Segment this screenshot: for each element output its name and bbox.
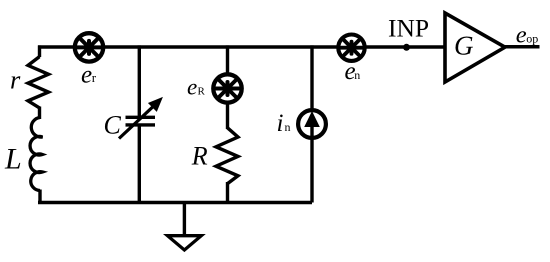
capacitor C variable arrow — [119, 98, 162, 139]
noise source e_n — [338, 35, 364, 61]
noise source e_r — [75, 33, 103, 61]
node INP dot — [403, 44, 410, 51]
svg-text:C: C — [104, 110, 122, 139]
inductor L — [30, 118, 42, 191]
svg-text:R: R — [191, 141, 208, 170]
ground — [168, 203, 202, 251]
wire: i_n branch (behind source) — [310, 45, 313, 202]
wire: R to bottom rail — [226, 182, 229, 203]
wire: L to bottom rail — [38, 190, 41, 203]
op-amp G triangle — [445, 13, 505, 82]
svg-text:r: r — [92, 70, 97, 85]
wire: capacitor branch lower — [138, 125, 141, 203]
svg-text:e: e — [187, 75, 197, 100]
capacitor C plates — [126, 116, 156, 119]
svg-text:e: e — [81, 61, 92, 88]
svg-text:op: op — [526, 31, 538, 45]
wire: capacitor branch upper — [138, 45, 141, 117]
svg-text:n: n — [354, 68, 360, 82]
svg-text:n: n — [285, 120, 291, 134]
svg-text:G: G — [454, 31, 474, 61]
noise source e_R — [213, 74, 241, 102]
resistor r — [28, 57, 49, 108]
resistor R — [216, 128, 238, 184]
wire: output — [505, 45, 540, 49]
wire: r to L — [38, 107, 41, 120]
svg-text:INP: INP — [388, 14, 429, 43]
svg-text:R: R — [198, 86, 206, 98]
wire: left branch top stub — [38, 45, 41, 57]
wire: bottom rail — [38, 201, 312, 204]
svg-text:L: L — [4, 143, 22, 176]
svg-text:e: e — [516, 21, 527, 48]
svg-text:i: i — [277, 110, 284, 137]
wire: R branch (behind e_R source) — [226, 45, 229, 129]
current source i_n — [298, 110, 326, 138]
wire: top rail — [38, 45, 445, 48]
svg-text:r: r — [10, 65, 21, 95]
